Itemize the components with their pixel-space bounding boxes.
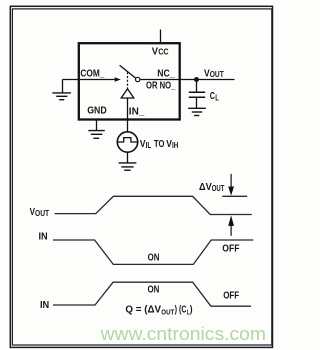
svg-text:www.cntronics.com: www.cntronics.com bbox=[100, 324, 266, 344]
svg-text:IN: IN bbox=[39, 232, 48, 243]
svg-text:Q = (ΔV: Q = (ΔV bbox=[125, 305, 161, 316]
svg-text:ON: ON bbox=[148, 252, 160, 263]
svg-text:TO: TO bbox=[154, 139, 165, 150]
svg-text:COM_: COM_ bbox=[80, 68, 104, 79]
svg-text:NC_: NC_ bbox=[157, 69, 175, 80]
svg-text:OFF: OFF bbox=[223, 290, 239, 301]
svg-text:ON: ON bbox=[148, 285, 160, 296]
svg-text:OUT: OUT bbox=[212, 183, 225, 193]
svg-text:IN_: IN_ bbox=[129, 107, 145, 118]
svg-text:OUT: OUT bbox=[161, 307, 174, 316]
svg-text:ΔV: ΔV bbox=[199, 182, 212, 193]
svg-text:): ) bbox=[190, 305, 193, 316]
svg-text:C: C bbox=[210, 91, 215, 102]
svg-text:OR NO_: OR NO_ bbox=[146, 80, 176, 91]
svg-text:GND: GND bbox=[87, 106, 107, 117]
svg-text:IH: IH bbox=[172, 140, 178, 150]
svg-text:L: L bbox=[215, 92, 219, 102]
svg-text:IL: IL bbox=[146, 140, 152, 150]
svg-text:CC: CC bbox=[158, 47, 168, 57]
svg-text:OUT: OUT bbox=[210, 69, 225, 79]
svg-text:) (C: ) (C bbox=[175, 305, 187, 316]
svg-text:IN: IN bbox=[40, 300, 49, 311]
svg-text:OUT: OUT bbox=[35, 208, 50, 218]
svg-text:OFF: OFF bbox=[222, 244, 239, 255]
